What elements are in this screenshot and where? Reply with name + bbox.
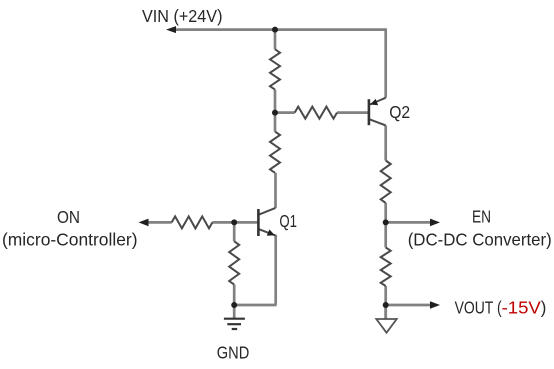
svg-text:-15V: -15V bbox=[502, 298, 541, 318]
svg-text:(DC-DC Converter): (DC-DC Converter) bbox=[408, 229, 552, 249]
svg-text:): ) bbox=[541, 298, 547, 318]
svg-text:EN: EN bbox=[472, 207, 491, 227]
svg-text:Q1: Q1 bbox=[279, 211, 297, 231]
svg-text:GND: GND bbox=[217, 343, 250, 363]
svg-text:Q2: Q2 bbox=[389, 102, 410, 122]
svg-text:(micro-Controller): (micro-Controller) bbox=[2, 230, 138, 250]
svg-text:VOUT (: VOUT ( bbox=[455, 298, 502, 318]
svg-text:VIN (+24V): VIN (+24V) bbox=[142, 6, 223, 26]
svg-text:ON: ON bbox=[57, 207, 80, 227]
